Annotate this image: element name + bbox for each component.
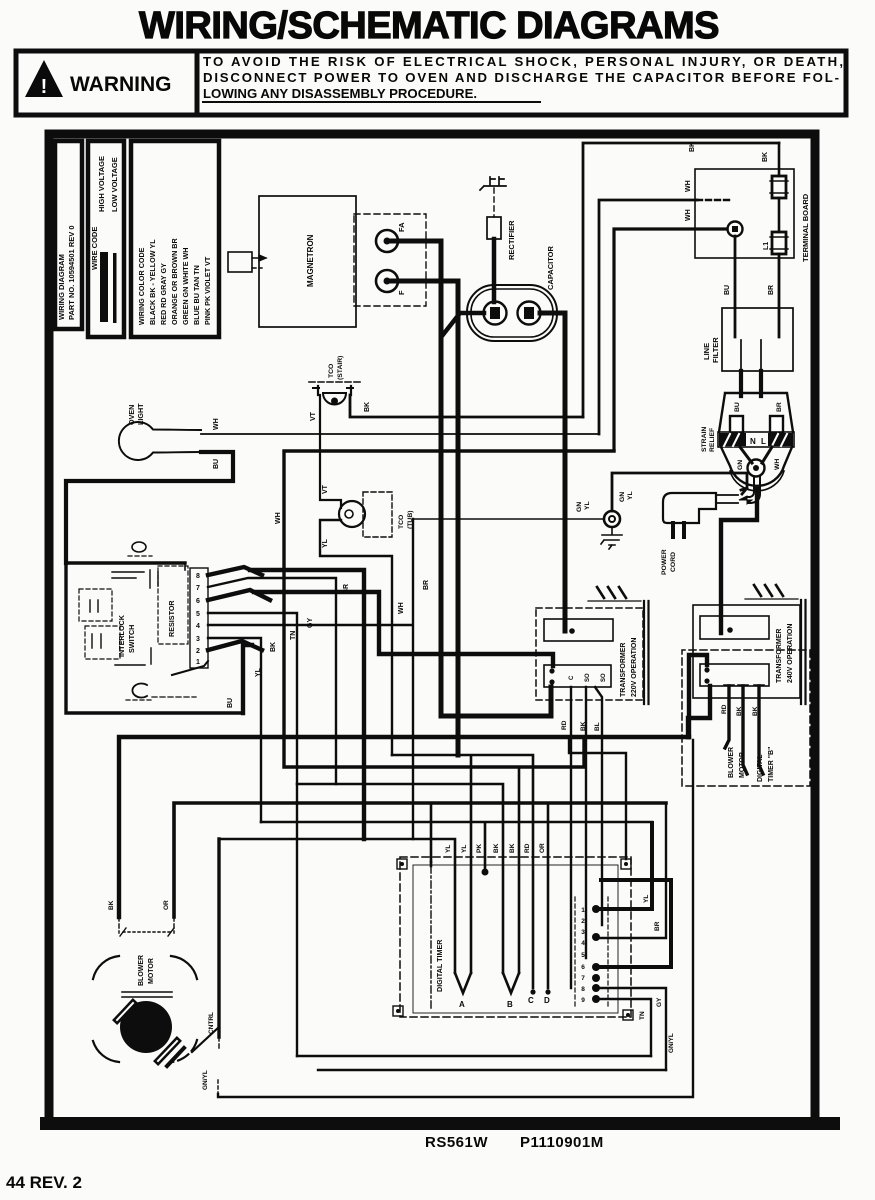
svg-text:WARNING: WARNING (70, 73, 172, 96)
power cord cable snout (716, 495, 738, 503)
timer pin dots (592, 905, 600, 1003)
transformer 240 primary feed (721, 489, 757, 633)
svg-text:C: C (569, 675, 575, 680)
svg-text:!: ! (41, 76, 48, 98)
svg-text:GN/YL: GN/YL (202, 1070, 209, 1090)
timer wire color labels (445, 843, 546, 853)
svg-text:DIGITAL TIMER: DIGITAL TIMER (435, 939, 444, 992)
svg-text:D: D (544, 996, 550, 1005)
svg-text:RD: RD (721, 704, 728, 714)
svg-text:RD: RD (524, 843, 531, 853)
transformer 220 primary (544, 619, 613, 641)
interlock connector column (190, 568, 208, 668)
wire labels on fan (255, 580, 430, 677)
wire VT stair to tub (320, 395, 341, 508)
svg-text:9: 9 (581, 997, 585, 1004)
magnetron terminal F (376, 270, 398, 292)
svg-text:WH: WH (213, 418, 220, 430)
svg-text:4: 4 (196, 623, 200, 630)
magnetron box (259, 196, 356, 327)
timer pin3 wire BR (596, 804, 666, 938)
svg-text:RD: RD (561, 720, 568, 730)
svg-text:240V OPERATION: 240V OPERATION (787, 624, 794, 683)
svg-text:GN/YL: GN/YL (668, 1033, 675, 1053)
svg-text:BU: BU (734, 402, 741, 412)
svg-text:WIRE CODE: WIRE CODE (90, 227, 99, 270)
wire GN YL from node to strain relief (612, 473, 747, 511)
svg-text:TERMINAL BOARD: TERMINAL BOARD (801, 193, 810, 262)
svg-text:YL: YL (255, 667, 262, 677)
transformer 240 core lines (801, 600, 806, 704)
svg-text:GY: GY (307, 618, 314, 628)
timer pin6 wire (596, 880, 671, 967)
svg-text:RESISTOR: RESISTOR (167, 600, 176, 637)
pin 3 wire (208, 638, 261, 822)
strain relief lower shell (721, 447, 792, 486)
svg-text:BK: BK (752, 706, 759, 716)
svg-text:8: 8 (196, 573, 200, 580)
svg-text:YL: YL (643, 895, 650, 903)
blower motor dashed housing (123, 931, 172, 933)
svg-text:1: 1 (196, 659, 200, 666)
blower timer B box (682, 650, 810, 786)
strain relief terminal N (730, 416, 743, 433)
wire BU oven light loop (66, 452, 233, 563)
svg-text:MAGNETRON: MAGNETRON (306, 234, 315, 287)
wire WH thick cross run (284, 451, 614, 767)
svg-text:B: B (507, 1000, 513, 1009)
svg-text:WH: WH (685, 180, 692, 192)
outer schematic frame (49, 134, 815, 1124)
transformer 240 box (693, 605, 800, 698)
fuse upper (778, 143, 781, 176)
line filter leads to strain relief (741, 371, 761, 396)
transformer 220 dashed box (536, 608, 643, 700)
timer corner connectors (393, 859, 633, 1020)
svg-text:BK: BK (736, 706, 743, 716)
svg-text:OR: OR (163, 900, 170, 910)
bus 755 (392, 755, 533, 988)
svg-text:OVEN: OVEN (127, 405, 136, 425)
bus 803 (174, 803, 666, 917)
pin 7 wire (208, 578, 336, 784)
svg-text:RECTIFIER: RECTIFIER (507, 220, 516, 260)
strain relief body (719, 393, 793, 432)
capacitor terminal right (518, 302, 541, 325)
interlock switch box (66, 563, 242, 713)
thin line into ground node (413, 518, 604, 520)
svg-text:L1: L1 (763, 242, 770, 250)
svg-text:GN: GN (737, 460, 744, 470)
svg-text:SWITCH: SWITCH (127, 625, 136, 653)
timer loop A point (455, 973, 471, 993)
svg-text:5: 5 (196, 611, 200, 618)
bus 737 (119, 737, 689, 917)
svg-text:P1110901M: P1110901M (520, 1134, 604, 1151)
svg-text:WH: WH (275, 512, 282, 524)
transformer 240 primary (700, 616, 769, 639)
svg-text:GREEN GN WHITE WH: GREEN GN WHITE WH (181, 248, 190, 325)
svg-text:MOTOR: MOTOR (148, 958, 155, 984)
bus 839 (219, 839, 455, 973)
transformer 240 secondary pins (724, 684, 764, 686)
pin 8 wire (208, 567, 364, 839)
blower ground dashed stub (217, 1080, 219, 1094)
strain relief clamp band hatched (718, 432, 794, 447)
chassis ground above rectifier (480, 177, 506, 190)
svg-text:OR: OR (539, 843, 546, 853)
resistor dashed outline (158, 566, 188, 644)
svg-text:WH: WH (398, 602, 405, 614)
svg-text:VT: VT (310, 411, 317, 421)
svg-text:L: L (761, 437, 766, 446)
bus 822 (261, 822, 652, 868)
svg-text:LOWING ANY DISASSEMBLY PROCEDU: LOWING ANY DISASSEMBLY PROCEDURE. (203, 86, 477, 101)
wire BK from TCO stair (350, 395, 583, 417)
svg-text:RS561W: RS561W (425, 1134, 488, 1151)
svg-text:INTERLOCK: INTERLOCK (117, 614, 126, 657)
svg-text:TN: TN (290, 631, 297, 640)
transformer 220 hatch (597, 587, 626, 598)
svg-text:TCO: TCO (328, 364, 335, 378)
svg-text:BLUE BU TAN TN: BLUE BU TAN TN (192, 265, 201, 325)
capacitor body (467, 285, 557, 341)
svg-text:BK: BK (493, 843, 500, 853)
svg-text:2: 2 (581, 918, 585, 925)
svg-text:STRAIN: STRAIN (701, 427, 708, 452)
svg-text:WIRING DIAGRAM: WIRING DIAGRAM (57, 254, 66, 320)
svg-text:4: 4 (581, 940, 585, 947)
svg-text:BLACK BK - YELLOW YL: BLACK BK - YELLOW YL (148, 239, 157, 325)
svg-text:BLOWER: BLOWER (728, 747, 735, 778)
svg-text:YL: YL (445, 845, 452, 853)
timer loop B point (503, 973, 519, 993)
power cord plug (663, 493, 716, 523)
svg-text:SO: SO (585, 673, 591, 682)
svg-text:GN: GN (619, 492, 626, 502)
magnetron tube dashed outline (354, 214, 426, 306)
timer pin9 wire GY (596, 999, 651, 1056)
bus 784 (297, 784, 503, 973)
svg-text:44 REV. 2: 44 REV. 2 (6, 1173, 82, 1192)
svg-text:BR: BR (343, 584, 350, 594)
wire WH oven light (201, 433, 599, 435)
svg-text:220V OPERATION: 220V OPERATION (631, 638, 638, 697)
HV return to transformer U (441, 687, 551, 716)
jog wire to timer connector (569, 737, 626, 859)
timer feeder x431 (430, 803, 433, 862)
svg-text:WIRING COLOR CODE: WIRING COLOR CODE (137, 247, 146, 325)
capacitor left jumper diagonal (442, 313, 484, 336)
transformer 240 secondary (700, 664, 769, 686)
bottom run 3 GN YL (218, 740, 693, 1097)
blower motor hatch marks (117, 1003, 133, 1020)
line filter box (722, 308, 793, 371)
inlet dash lead (252, 267, 262, 269)
svg-text:TO AVOID THE RISK OF ELECTRICA: TO AVOID THE RISK OF ELECTRICAL SHOCK, P… (203, 54, 843, 69)
svg-text:7: 7 (196, 585, 200, 592)
svg-text:HIGH VOLTAGE: HIGH VOLTAGE (97, 156, 106, 212)
svg-text:TRANSFORMER: TRANSFORMER (620, 643, 627, 697)
blower lever pointer (192, 1027, 219, 1052)
bottom run 2 (318, 1069, 666, 1071)
TCO tub (339, 501, 365, 527)
svg-text:VT: VT (322, 484, 329, 494)
pin 2 wire blade (208, 641, 262, 713)
svg-text:FA: FA (397, 222, 406, 232)
wire BK top run (583, 143, 779, 417)
rectifier lead to capacitor (492, 239, 497, 302)
blower lead stubs (119, 917, 174, 933)
svg-text:BU: BU (213, 459, 220, 469)
svg-text:BLOWER: BLOWER (138, 955, 145, 986)
svg-text:5: 5 (581, 952, 585, 959)
magnetron terminal FA (376, 230, 398, 252)
svg-text:YL: YL (627, 491, 634, 500)
svg-text:LOW VOLTAGE: LOW VOLTAGE (110, 157, 119, 212)
svg-text:LINE: LINE (702, 343, 711, 360)
strain relief terminal L (770, 416, 783, 433)
transformer 220 secondary leads (570, 687, 572, 988)
digital timer dashed box (400, 857, 631, 1017)
oven light bulb (119, 422, 201, 460)
transformer 240 hatch (754, 585, 783, 596)
interlock O mark (132, 542, 146, 552)
terminal board box (695, 169, 794, 258)
svg-text:YL: YL (322, 538, 329, 548)
svg-text:3: 3 (581, 929, 585, 936)
svg-text:6: 6 (581, 964, 585, 971)
timer pin1 wire YL (596, 823, 652, 909)
svg-text:6: 6 (196, 598, 200, 605)
frame bottom heavy bar (40, 1117, 840, 1130)
interlock contact details (79, 589, 112, 621)
svg-text:(STAIR): (STAIR) (337, 356, 344, 380)
svg-text:YL: YL (461, 845, 468, 853)
power inlet arrow box (228, 252, 252, 272)
svg-text:PART NO. 10594501 REV 0: PART NO. 10594501 REV 0 (67, 226, 76, 321)
wire YL from tub (320, 520, 392, 755)
svg-text:BK: BK (270, 642, 277, 652)
wire FA to HV vertical (391, 241, 441, 716)
warning triangle (25, 60, 63, 97)
info box 3 color code (131, 141, 219, 337)
transformer 220 core lines (644, 601, 649, 704)
svg-text:BK: BK (762, 152, 769, 162)
terminal board node (728, 222, 743, 237)
pin 4 wire (208, 519, 413, 839)
svg-text:CNTRL: CNTRL (208, 1012, 215, 1034)
svg-text:BK: BK (689, 142, 696, 152)
line filter inner stubs (741, 340, 761, 371)
capacitor right to transformer primary (540, 313, 565, 631)
power cord prongs (673, 523, 684, 537)
svg-text:FILTER: FILTER (711, 337, 720, 363)
svg-text:BR: BR (776, 402, 783, 412)
svg-text:TIMER "B": TIMER "B" (768, 747, 775, 782)
transformer 220 secondary (544, 665, 611, 687)
svg-text:F: F (397, 290, 406, 295)
TCO stair (323, 393, 346, 405)
svg-text:RED RD GRAY GY: RED RD GRAY GY (159, 263, 168, 325)
pin 6 wire blade (208, 590, 553, 666)
svg-text:DISCONNECT POWER TO OVEN AND D: DISCONNECT POWER TO OVEN AND DISCHARGE T… (203, 70, 839, 85)
svg-text:N: N (750, 437, 756, 446)
svg-text:YL: YL (584, 501, 591, 510)
timer wire D (547, 803, 550, 988)
fuse lower (778, 198, 781, 232)
svg-text:ORANGE OR BROWN BR: ORANGE OR BROWN BR (170, 238, 179, 325)
high voltage bar (100, 252, 108, 322)
svg-text:RELIEF: RELIEF (709, 428, 716, 452)
timer pin column (575, 897, 608, 1008)
strain relief to cord arrow (748, 477, 760, 503)
svg-text:GN: GN (576, 502, 583, 512)
svg-text:CORD: CORD (670, 552, 677, 572)
interlock C mark (132, 684, 147, 698)
svg-text:GY: GY (656, 997, 663, 1007)
svg-text:TRANSFORMER: TRANSFORMER (776, 629, 783, 683)
svg-text:POWER: POWER (661, 549, 668, 575)
strain relief grommet circle (748, 460, 765, 477)
warning box (16, 51, 846, 115)
timer terminal letters (459, 996, 550, 1009)
ground node circle (604, 511, 620, 527)
strain relief cord wires V (740, 447, 772, 463)
svg-text:SO: SO (601, 673, 607, 682)
blower motor body (120, 1001, 172, 1053)
ground node chassis symbol (601, 527, 622, 549)
svg-text:BK: BK (108, 900, 115, 910)
svg-text:BK: BK (364, 402, 371, 412)
svg-text:8: 8 (581, 986, 585, 993)
svg-text:WH: WH (685, 209, 692, 221)
warning text (203, 54, 843, 102)
rectifier body (487, 217, 501, 239)
pin 5 wire (208, 613, 297, 1056)
pin 1 wire BU (172, 661, 208, 675)
svg-text:BK: BK (580, 721, 587, 731)
low voltage bar (113, 253, 117, 323)
svg-text:BU: BU (724, 285, 731, 295)
svg-text:3: 3 (196, 636, 200, 643)
svg-text:WH: WH (774, 459, 781, 470)
svg-text:1: 1 (581, 907, 585, 914)
inlet arrow (252, 255, 266, 261)
svg-text:TCO: TCO (398, 515, 405, 529)
info box 1 part number (55, 141, 82, 329)
svg-text:PK: PK (476, 844, 483, 853)
wire WH run lower to node (614, 229, 727, 450)
svg-text:A: A (459, 1000, 465, 1009)
info box 2 wire code (88, 141, 124, 337)
bottom run 1 (297, 1055, 651, 1057)
svg-text:BR: BR (654, 921, 661, 931)
svg-text:C: C (528, 996, 534, 1005)
node lead down to line filter (734, 236, 737, 337)
svg-text:CAPACITOR: CAPACITOR (546, 246, 555, 290)
svg-text:7: 7 (581, 975, 585, 982)
warning divider (195, 51, 200, 115)
svg-text:BK: BK (509, 843, 516, 853)
capacitor terminal left (484, 302, 507, 325)
fuse lead down to line filter (778, 254, 781, 337)
wire WH run upper (599, 200, 697, 434)
svg-text:PINK PK VIOLET VT: PINK PK VIOLET VT (203, 256, 212, 325)
svg-text:WIRING/SCHEMATIC DIAGRAMS: WIRING/SCHEMATIC DIAGRAMS (139, 5, 719, 47)
timer pin8 wire (596, 988, 666, 1070)
svg-text:BR: BR (423, 580, 430, 590)
svg-text:BL: BL (594, 722, 601, 731)
rectifier dashed lead (493, 188, 495, 217)
transformer 240 left elbows (689, 655, 707, 737)
svg-text:TN: TN (639, 1011, 646, 1020)
wire F to HV vertical (391, 281, 458, 755)
svg-text:2: 2 (196, 648, 200, 655)
svg-text:LIGHT: LIGHT (136, 403, 145, 425)
svg-text:BR: BR (768, 285, 775, 295)
svg-text:BU: BU (227, 698, 234, 708)
